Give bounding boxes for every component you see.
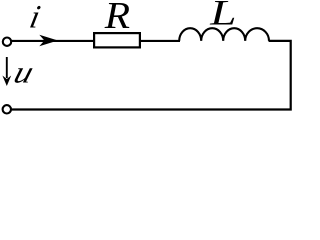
svg-text:i: i bbox=[27, 0, 44, 36]
svg-text:u: u bbox=[10, 56, 38, 90]
wire top: terminal T1 to resistor bbox=[11, 40, 93, 42]
voltage arrow u (head) bbox=[2, 76, 11, 87]
resistor R bbox=[94, 33, 140, 47]
inductor L bbox=[179, 28, 269, 41]
current arrow i bbox=[39, 35, 58, 46]
terminal T2 (bottom-left open circle) bbox=[3, 105, 11, 113]
wire: resistor to inductor bbox=[140, 40, 180, 42]
svg-text:L: L bbox=[209, 0, 236, 33]
wire: inductor to top-right corner, down right side, along bottom to terminal T2 bbox=[12, 41, 291, 110]
svg-text:R: R bbox=[104, 0, 130, 36]
terminal T1 (top-left open circle) bbox=[3, 38, 11, 46]
voltage arrow u (shaft) bbox=[6, 57, 8, 78]
